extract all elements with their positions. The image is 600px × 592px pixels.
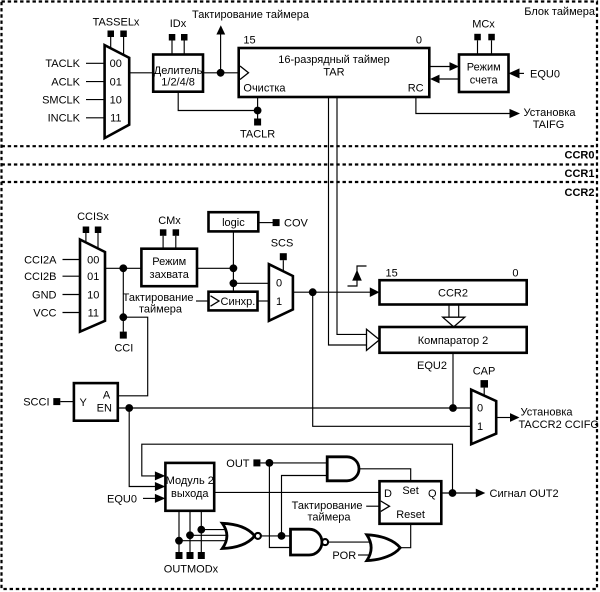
svg-text:1: 1 <box>276 296 282 308</box>
svg-text:00: 00 <box>87 254 99 266</box>
TASSELx control square 1 <box>108 31 115 38</box>
svg-text:CMx: CMx <box>158 215 181 227</box>
wire OUT2 feedback to output module <box>142 444 453 493</box>
dashed separator line below timer block <box>2 145 598 147</box>
svg-text:таймера: таймера <box>307 512 351 524</box>
wire OR output to FF Reset <box>400 524 411 548</box>
svg-text:ACLK: ACLK <box>51 77 80 89</box>
wire module output to D input <box>214 491 379 493</box>
wire mux output to divider <box>129 72 153 74</box>
svg-text:счета: счета <box>470 75 499 87</box>
latch SCCI box <box>74 383 118 421</box>
wire latch EN line to CAP mux input 0 <box>118 407 471 409</box>
svg-text:15: 15 <box>243 35 255 47</box>
divider box Делитель 1/2/4/8 <box>153 55 203 92</box>
wire EQU0 into module input 3 <box>143 497 156 499</box>
svg-text:Блок таймера: Блок таймера <box>524 6 596 18</box>
node TACLR junction <box>254 107 262 115</box>
NAND gate (reset logic) <box>291 529 322 555</box>
svg-text:GND: GND <box>32 289 57 301</box>
svg-text:11: 11 <box>110 113 121 125</box>
svg-text:A: A <box>103 389 111 401</box>
SCS control square <box>280 253 287 260</box>
wire timer clock up arrow <box>220 34 222 73</box>
D flip-flop box <box>380 481 442 524</box>
capture edge symbol <box>348 266 367 286</box>
node capture to mux0 junction <box>230 279 238 287</box>
svg-text:EQU2: EQU2 <box>417 360 447 372</box>
svg-text:1/2/4/8: 1/2/4/8 <box>161 77 195 89</box>
wire OUT to AND gate upper input <box>260 462 327 464</box>
wire CCI down <box>122 268 124 332</box>
svg-text:Q: Q <box>428 488 437 500</box>
mux SCS (capture sync select) <box>269 264 293 321</box>
bus wire from TAR down to comparator (left line) <box>329 97 367 345</box>
FF clock stub <box>366 505 379 507</box>
node CCI junction <box>119 264 127 272</box>
wire capture branch down to CAP mux input 1 <box>313 292 472 426</box>
logic box <box>209 212 259 231</box>
svg-text:D: D <box>384 488 392 500</box>
svg-text:16-разрядный таймер: 16-разрядный таймер <box>278 54 390 66</box>
svg-text:CCI2B: CCI2B <box>24 271 56 283</box>
bus wire from TAR down to comparator (right line) <box>337 97 367 334</box>
EQU0 input wire <box>509 72 525 74</box>
svg-text:Y: Y <box>80 397 88 409</box>
svg-text:CCR2: CCR2 <box>438 288 468 300</box>
svg-text:1: 1 <box>477 421 483 433</box>
svg-text:Сигнал OUT2: Сигнал OUT2 <box>490 488 559 500</box>
sync box Синхр. <box>209 292 258 311</box>
CCR2 register box <box>380 280 527 304</box>
wire EQU2 from comparator <box>452 353 454 408</box>
wire CAP mux output arrow <box>496 417 511 419</box>
svg-text:Установка: Установка <box>524 107 577 119</box>
OUTMODx stem 1 <box>178 511 180 553</box>
wire sync output to small mux input 1 <box>258 300 269 302</box>
wire capture signal from mux to CCR2 <box>293 291 371 293</box>
svg-text:EN: EN <box>97 403 112 415</box>
svg-text:выхода: выхода <box>171 488 209 500</box>
SCCI input square <box>53 398 60 405</box>
svg-text:SMCLK: SMCLK <box>42 95 81 107</box>
dashed separator line below CCR0 row <box>2 163 598 165</box>
svg-text:IDx: IDx <box>170 18 187 30</box>
node NOR/OUT junction <box>278 532 286 540</box>
svg-text:OUT: OUT <box>226 458 250 470</box>
svg-text:INCLK: INCLK <box>48 113 81 125</box>
OUT input square <box>253 459 260 466</box>
svg-text:Тактирование таймера: Тактирование таймера <box>192 9 310 21</box>
node EN branch junction <box>125 404 133 412</box>
svg-text:01: 01 <box>110 77 122 89</box>
wire capture-mode output <box>197 267 233 269</box>
svg-text:TACLR: TACLR <box>240 129 275 141</box>
svg-text:CCR2: CCR2 <box>565 187 595 199</box>
svg-text:Делитель: Делитель <box>154 65 203 77</box>
svg-text:TACLK: TACLK <box>45 58 80 70</box>
svg-text:Тактирование: Тактирование <box>292 500 363 512</box>
POR input stub <box>358 554 370 556</box>
CAP control square <box>481 380 489 388</box>
OR gate (reset with POR) <box>367 535 400 561</box>
svg-text:00: 00 <box>110 58 122 70</box>
wire capture junction to small mux input 0 <box>233 282 269 284</box>
wire NOR output to NAND input <box>261 535 291 537</box>
svg-text:10: 10 <box>110 95 122 107</box>
wire divider to TAR <box>203 72 239 74</box>
count mode box Режим счета <box>459 55 509 93</box>
svg-text:15: 15 <box>386 267 398 279</box>
svg-text:CCR0: CCR0 <box>565 150 595 162</box>
svg-text:0: 0 <box>477 403 483 415</box>
wire CCI to latch A input <box>118 317 148 396</box>
svg-text:11: 11 <box>88 307 99 319</box>
svg-text:Установка: Установка <box>521 407 574 419</box>
svg-text:SCCI: SCCI <box>23 397 49 409</box>
MCx control square 2 <box>488 34 495 41</box>
NOR gate (output mode decode) <box>222 523 254 548</box>
svg-text:Режим: Режим <box>152 256 186 268</box>
svg-text:RC: RC <box>408 82 424 94</box>
svg-text:MCx: MCx <box>472 19 495 31</box>
wire EN branch down to module input 2 <box>129 408 155 487</box>
wire count-mode to TAR (arrow left) <box>439 78 460 80</box>
node EQU2 junction <box>449 404 457 412</box>
wire logic to COV <box>258 222 273 224</box>
mux CCISx (capture input select) <box>80 240 105 332</box>
svg-text:10: 10 <box>87 289 99 301</box>
capture mode box Режим захвата <box>141 249 197 287</box>
svg-text:TAIFG: TAIFG <box>533 119 565 131</box>
wire TAR to count-mode (arrow right) <box>429 66 450 68</box>
CMx control square 1 <box>160 229 167 236</box>
svg-text:CAP: CAP <box>473 366 496 378</box>
mux CAP (capture/compare select) <box>471 390 496 445</box>
svg-text:TASSELx: TASSELx <box>93 17 140 29</box>
CCISx control square 1 <box>83 227 90 234</box>
wire junction up to AND gate lower input <box>282 476 328 536</box>
svg-text:0: 0 <box>276 277 282 289</box>
svg-text:EQU0: EQU0 <box>107 493 137 505</box>
svg-text:TAR: TAR <box>323 67 344 79</box>
OUTMODx stem 3 <box>200 511 202 553</box>
FF clock chevron <box>381 501 390 511</box>
svg-text:Очистка: Очистка <box>243 82 286 94</box>
IDx control square 1 <box>169 34 176 41</box>
TASSELx control square 2 <box>120 31 127 38</box>
wire logic box down through junctions to sync box <box>232 231 234 291</box>
svg-text:0: 0 <box>416 35 422 47</box>
svg-text:COV: COV <box>284 218 309 230</box>
svg-text:Компаратор 2: Компаратор 2 <box>418 335 488 347</box>
svg-text:CCI2A: CCI2A <box>24 254 57 266</box>
CMx control square 2 <box>173 229 180 236</box>
svg-text:Синхр.: Синхр. <box>221 296 256 308</box>
svg-text:Модуль 2: Модуль 2 <box>166 475 214 487</box>
node capture branch junction <box>309 288 317 296</box>
wire RC to Установка TAIFG <box>416 97 511 114</box>
TACLR input square <box>257 111 259 120</box>
wire Q output <box>441 492 476 494</box>
svg-text:Тактирование: Тактирование <box>123 292 194 304</box>
wire OUT down to NAND lower input <box>269 463 290 548</box>
OUTMODx stem 2 <box>189 511 191 553</box>
node OUT junction <box>266 459 274 467</box>
IDx control square 2 <box>181 34 188 41</box>
MCx control square 1 <box>474 34 481 41</box>
comparator box Компаратор 2 <box>380 327 527 353</box>
node capture/logic junction <box>230 264 238 272</box>
svg-text:CCI: CCI <box>114 343 133 355</box>
svg-text:OUTMODx: OUTMODx <box>164 564 219 576</box>
svg-text:Set: Set <box>402 485 419 497</box>
svg-text:захвата: захвата <box>150 269 190 281</box>
hollow arrow CCR2 to comparator <box>448 305 450 318</box>
svg-text:EQU0: EQU0 <box>530 68 560 80</box>
svg-text:0: 0 <box>512 267 518 279</box>
mux TASSELx (clock source selector) <box>105 45 130 138</box>
open arrowhead of bus into comparator <box>367 329 380 350</box>
node Q junction <box>449 489 457 497</box>
COV square <box>273 219 280 226</box>
node: timer clock junction <box>217 69 225 77</box>
output module box Модуль 2 выхода <box>165 463 214 511</box>
AND gate (set logic) <box>327 457 359 481</box>
svg-text:CCISx: CCISx <box>77 211 109 223</box>
svg-text:logic: logic <box>222 217 245 229</box>
svg-text:01: 01 <box>87 271 99 283</box>
wire CCISx mux to capture-mode box <box>105 267 141 269</box>
wire TACLR / Очистка <box>178 92 257 111</box>
wire NAND output to OR input <box>328 541 372 543</box>
wire AND output to FF Set <box>359 469 411 481</box>
node CCI lower junction <box>119 313 127 321</box>
16-bit timer TAR box <box>239 48 430 97</box>
svg-text:SCS: SCS <box>271 238 294 250</box>
svg-text:Reset: Reset <box>396 509 425 521</box>
wire clock stub into sync box <box>196 300 209 302</box>
svg-text:VCC: VCC <box>33 307 56 319</box>
CCI input square <box>120 332 127 339</box>
svg-text:TACCR2 CCIFG: TACCR2 CCIFG <box>519 419 599 431</box>
svg-text:Режим: Режим <box>467 62 501 74</box>
CCISx control square 2 <box>95 227 102 234</box>
TAR clock chevron <box>240 66 249 80</box>
svg-text:POR: POR <box>332 550 356 562</box>
dashed separator line below CCR1 row <box>2 181 598 183</box>
svg-text:таймера: таймера <box>139 303 183 315</box>
svg-text:CCR1: CCR1 <box>565 168 595 180</box>
